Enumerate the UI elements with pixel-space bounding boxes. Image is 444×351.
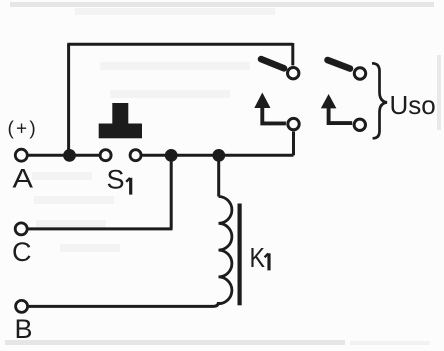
pushbutton S1 right contact circle: [130, 150, 141, 161]
relay contact 2 armature arrow: [329, 106, 353, 123]
node C terminal circle: [15, 223, 27, 235]
svg-text:Uso: Uso: [390, 90, 436, 120]
svg-text:B: B: [15, 314, 33, 344]
relay contact 1 top circle: [288, 68, 299, 79]
svg-text:C: C: [12, 237, 32, 267]
wire: main A rail y=155.3 from terminal A to relay drop: [27, 154, 100, 157]
wire: vertical from junction dot up to top rail: [67, 44, 70, 155]
svg-text:K: K: [250, 242, 266, 273]
brace for Uso: [372, 63, 387, 138]
junction dot (A rail / coil K1): [212, 149, 225, 162]
coil K1 core bar: [238, 204, 242, 306]
wire: B rail from coil bottom to terminal B: [28, 302, 219, 306]
svg-text:S: S: [107, 165, 125, 195]
junction dot (A rail / C branch): [165, 149, 178, 162]
wire: relay bottom contact down to main rail: [292, 132, 295, 156]
relay contact 2 blade: [328, 60, 351, 69]
node A terminal circle: [15, 149, 27, 161]
relay contact 1 armature arrow: [262, 106, 286, 123]
svg-text:(+): (+): [8, 119, 38, 140]
wire: junction3 down to coil: [217, 155, 220, 196]
wire: top rail: [67, 43, 292, 46]
wire: C rail: [27, 227, 172, 230]
junction dot (A rail / top loop): [63, 149, 76, 162]
wire: S1 right side to relay contact drop: [143, 154, 294, 157]
pushbutton S1 left contact circle: [100, 150, 111, 161]
coil K1 winding: [219, 197, 232, 304]
wire: top rail down to NC contact top circle: [291, 43, 294, 65]
pushbutton S1 plunger cap: [99, 103, 142, 138]
wire: junction2 down to C rail: [170, 155, 173, 229]
node B terminal circle: [16, 300, 28, 312]
relay contact 1 bottom circle: [288, 118, 299, 129]
svg-text:A: A: [13, 164, 34, 194]
relay contact 1 blade (NC moving arm): [261, 59, 284, 68]
relay contact 2 bottom circle: [354, 119, 365, 130]
relay contact 2 top circle: [354, 68, 365, 79]
